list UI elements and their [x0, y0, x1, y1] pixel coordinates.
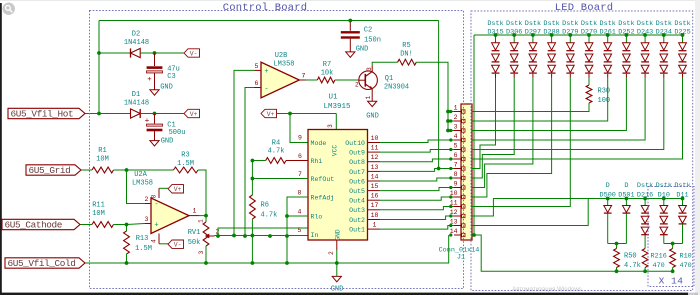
svg-text:D: D — [624, 182, 628, 190]
svg-text:6U5_Grid: 6U5_Grid — [29, 165, 71, 176]
wire pin3 to col8 — [472, 78, 626, 131]
svg-text:6: 6 — [255, 80, 259, 87]
pin 7 of J1 — [454, 168, 461, 170]
svg-text:Dstk: Dstk — [674, 182, 690, 190]
svg-text:2: 2 — [328, 251, 335, 255]
svg-text:14: 14 — [371, 173, 379, 180]
svg-text:D1: D1 — [132, 91, 140, 99]
wire pin9 to col3 — [472, 78, 533, 188]
svg-text:-: - — [264, 86, 268, 94]
svg-text:Dstk: Dstk — [674, 20, 690, 28]
LED stack Dstk D225 — [674, 20, 690, 36]
diode D2 1N4148 — [131, 48, 141, 57]
wire R3 to output node — [198, 170, 206, 216]
power flag V- (U2A pin4) — [159, 243, 168, 245]
svg-text:2N3904: 2N3904 — [384, 84, 409, 92]
op-amp U2B LM358 — [261, 62, 299, 98]
wire R11 to node — [114, 224, 127, 226]
U1 pin 15 Out5 stub — [368, 190, 381, 192]
ground C3 — [150, 90, 159, 95]
svg-text:Dstk: Dstk — [581, 20, 597, 28]
svg-text:GND: GND — [356, 46, 369, 54]
node grid — [125, 168, 129, 172]
wire pin6 to col11 — [472, 78, 683, 160]
LED stack Dstk D252 — [618, 20, 634, 36]
connector J1 Conn_01x14 — [461, 104, 472, 240]
wire R30 to pin1 — [472, 103, 589, 112]
U2A pin8 V+ stub — [158, 188, 160, 198]
wire Q1 collector up — [371, 66, 373, 72]
svg-text:7: 7 — [454, 162, 458, 169]
svg-text:D10: D10 — [658, 191, 670, 199]
svg-text:R3: R3 — [181, 152, 189, 160]
svg-text:In: In — [311, 232, 319, 239]
node aux D500 — [606, 197, 610, 201]
svg-text:10M: 10M — [92, 210, 105, 218]
wire In riser — [218, 228, 308, 236]
svg-text:R10: R10 — [680, 253, 692, 261]
wire pin12 to aux rail — [472, 199, 588, 217]
svg-text:Dstk: Dstk — [506, 20, 522, 28]
wire D10-D11 join — [664, 243, 683, 245]
LED stack Dstk D234 — [656, 20, 672, 36]
svg-text:Dstk: Dstk — [562, 20, 578, 28]
svg-text:Q1: Q1 — [385, 75, 393, 83]
LED stack Dstk D297 — [525, 20, 541, 36]
node anode col D306 — [512, 33, 516, 37]
node anode col D270 — [587, 33, 591, 37]
svg-text:R5: R5 — [402, 42, 410, 50]
U1 pin 11 Out9 stub — [368, 151, 381, 153]
resistor R50 4.7k — [616, 244, 618, 249]
svg-text:R50: R50 — [624, 253, 637, 261]
wire pin5 to col10 — [472, 78, 664, 150]
svg-text:Out1: Out1 — [349, 227, 365, 234]
resistor R11 10M — [92, 222, 114, 228]
pin 12 of J1 — [454, 215, 461, 217]
wire pin11 to col5 — [472, 78, 570, 207]
wire R1 to node — [114, 169, 127, 171]
LED Board sheet box — [471, 11, 693, 291]
wire Out5 to connector pin 9 — [380, 188, 454, 191]
wire D2 row — [99, 52, 131, 54]
node R6-wiper cross — [251, 234, 255, 238]
svg-text:D500: D500 — [600, 191, 616, 199]
LED stack Dstk D279 — [562, 20, 578, 36]
svg-text:Dstk: Dstk — [525, 20, 541, 28]
wire R5 to connector pin1 column — [416, 62, 448, 130]
wire V+ to U1 mode/vcc — [277, 113, 337, 115]
pin 6 of J1 — [454, 158, 461, 160]
svg-text:RefOut: RefOut — [311, 176, 335, 183]
LED stack Dstk D315 — [487, 20, 503, 36]
diode D1 1N4148 — [131, 109, 141, 118]
svg-text:Out10: Out10 — [345, 140, 365, 147]
svg-text:R216: R216 — [651, 253, 667, 261]
pin 11 of J1 — [454, 206, 461, 208]
node rail-hot — [97, 112, 101, 116]
svg-text:1: 1 — [373, 222, 377, 229]
svg-text:LED Board: LED Board — [555, 2, 614, 14]
svg-text:10: 10 — [371, 135, 379, 142]
svg-text:Out8: Out8 — [349, 159, 365, 166]
svg-text:X 14: X 14 — [659, 276, 684, 287]
U1 pin 17 Out3 stub — [368, 209, 381, 211]
Control Board sheet box — [90, 11, 464, 289]
power flag V+ (D1) — [184, 109, 200, 117]
ground C1 — [150, 141, 159, 146]
pin 14 of J1 — [454, 234, 461, 236]
node pin2 feed — [446, 119, 450, 123]
diode D10 — [656, 182, 672, 199]
svg-text:RV1: RV1 — [188, 229, 201, 237]
wire top supply rail — [99, 20, 439, 22]
power flag V+ (U1) — [261, 109, 277, 117]
wire Out10 to connector pin 4 — [380, 140, 454, 143]
svg-text:Out5: Out5 — [349, 188, 365, 195]
svg-text:R7: R7 — [323, 61, 331, 69]
svg-text:8: 8 — [151, 194, 158, 198]
node D2-C3 — [153, 51, 157, 55]
svg-text:GND: GND — [331, 286, 344, 294]
resistor R13 1.5M — [126, 225, 128, 232]
svg-text:C3: C3 — [167, 73, 175, 81]
svg-text:150n: 150n — [364, 37, 381, 45]
node pin1 feed — [446, 110, 450, 114]
wire RefOut row — [252, 178, 308, 180]
node left rail-pin14 row — [472, 233, 476, 237]
node wiper-RefAdj — [285, 234, 289, 238]
svg-text:16: 16 — [371, 193, 379, 200]
U2A pin4 V- stub — [158, 234, 160, 244]
svg-text:8: 8 — [298, 190, 302, 197]
svg-text:R1: R1 — [98, 147, 106, 155]
svg-text:6U5_Vfil_Hot: 6U5_Vfil_Hot — [11, 109, 74, 120]
resistor R4 4.7k — [252, 160, 265, 162]
LED stack Dstk D288 — [543, 20, 559, 36]
svg-text:6: 6 — [454, 152, 458, 159]
svg-text:Out3: Out3 — [349, 207, 365, 214]
wire wiper row to U1 In — [215, 235, 309, 237]
svg-text:Out9: Out9 — [349, 150, 365, 157]
power flag V+ (U2A pin8) — [159, 187, 168, 189]
global label 6U5_Vfil_Hot — [8, 108, 85, 118]
svg-text:11: 11 — [371, 145, 379, 152]
pin 13 of J1 — [454, 225, 461, 227]
svg-text:Out4: Out4 — [349, 198, 365, 205]
wire Out4 to connector pin 10 — [380, 197, 454, 200]
svg-text:R13: R13 — [136, 235, 149, 243]
wire node to U2A pin3 — [127, 224, 145, 225]
svg-text:470: 470 — [680, 262, 692, 270]
svg-text:6U5_Cathode: 6U5_Cathode — [5, 220, 63, 231]
node R50 top — [615, 242, 619, 246]
page bottom black border — [0, 293, 688, 295]
svg-text:10M: 10M — [96, 156, 109, 164]
svg-text:GND: GND — [160, 84, 173, 92]
svg-text:Dstk: Dstk — [487, 20, 503, 28]
svg-text:LM358: LM358 — [132, 180, 153, 188]
svg-text:V+: V+ — [174, 186, 182, 193]
wire U1 gnd to cold rail — [336, 250, 338, 263]
svg-text:100: 100 — [598, 97, 611, 105]
ground Q1 — [368, 101, 377, 106]
LED stack Dstk D270 — [581, 20, 597, 36]
page left black border — [0, 3, 2, 295]
resistor R1 10M — [92, 167, 114, 173]
resistor R6 4.7k — [251, 161, 253, 196]
svg-text:4.7k: 4.7k — [261, 212, 278, 220]
U1 pin 1 Out1 stub — [368, 228, 381, 230]
svg-text:4.7k: 4.7k — [268, 148, 285, 156]
node U2A output — [204, 214, 208, 218]
svg-text:15: 15 — [371, 183, 379, 190]
node cold-RV1 — [204, 261, 208, 265]
svg-text:Dstk: Dstk — [637, 182, 653, 190]
svg-text:7: 7 — [302, 73, 306, 80]
transistor Q1 2N3904 — [359, 71, 378, 90]
node wiper-In — [216, 234, 220, 238]
U1 pin 10 Out10 stub — [368, 142, 381, 144]
node aux D10 — [662, 197, 666, 201]
svg-text:GND: GND — [161, 138, 174, 146]
node R10 bottom — [671, 269, 675, 273]
X 14 sub box — [648, 187, 694, 287]
node anode col D252 — [625, 33, 629, 37]
pin 9 of J1 — [454, 187, 461, 189]
svg-text:500u: 500u — [169, 129, 186, 137]
pin 3 of J1 — [454, 130, 461, 132]
diode D216 — [637, 182, 653, 199]
svg-text:17: 17 — [371, 202, 379, 209]
svg-text:LM3915: LM3915 — [323, 103, 351, 111]
svg-text:Rhi: Rhi — [311, 158, 323, 165]
svg-text:470: 470 — [653, 262, 665, 270]
pin 5 of J1 — [454, 149, 461, 151]
svg-text:Dstk: Dstk — [656, 20, 672, 28]
svg-text:12: 12 — [371, 154, 379, 161]
node cold-R6 — [251, 261, 255, 265]
U1 pin 13 Out7 stub — [368, 170, 381, 172]
svg-text:LM358: LM358 — [273, 61, 294, 69]
svg-text:5: 5 — [454, 143, 458, 150]
svg-text:Dstk: Dstk — [600, 20, 616, 28]
svg-text:2: 2 — [145, 196, 149, 203]
node wiper-U2Bp5 — [232, 234, 236, 238]
U1 pin2 GND stub — [336, 240, 338, 250]
svg-text:Автоматизация Windows: Автоматизация Windows — [512, 286, 582, 293]
svg-text:6U5_Vfil_Cold: 6U5_Vfil_Cold — [8, 258, 76, 269]
wire Out8 to connector pin 6 — [380, 159, 454, 162]
node aux D11 — [681, 197, 685, 201]
svg-text:DN!: DN! — [400, 51, 413, 59]
node Rhi-R6col — [251, 159, 255, 163]
svg-text:9: 9 — [454, 181, 458, 188]
global label 6U5_Cathode — [2, 219, 80, 229]
node anode col D279 — [568, 33, 572, 37]
resistor R7 10k — [306, 79, 317, 81]
svg-text:U1: U1 — [328, 94, 338, 102]
page right gray band — [695, 0, 700, 295]
svg-text:Control Board: Control Board — [223, 2, 308, 14]
pin 1 of J1 — [454, 111, 461, 113]
node anode col D225 — [681, 33, 685, 37]
wire pin10 to col4 — [472, 78, 552, 198]
svg-text:GND: GND — [366, 113, 379, 121]
svg-text:7: 7 — [298, 171, 302, 178]
wire pin8 to col2 — [472, 78, 514, 179]
node cold-R13 — [125, 261, 129, 265]
svg-text:V-: V- — [174, 242, 182, 249]
U1 pin 14 Out6 stub — [368, 180, 381, 182]
resistor R10 470 — [672, 244, 674, 249]
pin 8 of J1 — [454, 177, 461, 179]
wire U2A out to node — [199, 215, 206, 217]
svg-text:1: 1 — [454, 105, 458, 112]
node R50 bottom — [615, 269, 619, 273]
svg-text:4.7k: 4.7k — [624, 262, 641, 270]
U1 pin 12 Out8 stub — [368, 161, 381, 163]
svg-text:1: 1 — [193, 208, 197, 215]
svg-text:3: 3 — [327, 124, 334, 128]
svg-text:V-: V- — [190, 50, 198, 57]
LED stack Dstk D306 — [506, 20, 522, 36]
node wiper-U2Bp6 — [243, 234, 247, 238]
node pin3 feed — [446, 129, 450, 133]
svg-text:U2B: U2B — [275, 52, 288, 60]
wire D1 to V+ flag — [140, 113, 184, 115]
svg-text:1: 1 — [365, 95, 372, 99]
pin 4 of J1 — [454, 139, 461, 141]
node cold-U1gnd — [335, 261, 339, 265]
svg-text:Rlo: Rlo — [311, 213, 323, 220]
svg-text:D501: D501 — [618, 191, 634, 199]
svg-text:5: 5 — [255, 63, 259, 70]
svg-text:V+: V+ — [267, 111, 275, 118]
capacitor C3 47u — [154, 53, 156, 66]
svg-text:D11: D11 — [676, 191, 688, 199]
node anode col D315 — [494, 33, 498, 37]
wire pin4 to col9 — [472, 78, 645, 141]
resistor R3 1.5M — [174, 167, 199, 173]
node RefOut-R6col — [251, 177, 255, 181]
wire pin2 to col7 — [472, 78, 608, 122]
wire R7 to Q1 base — [335, 79, 359, 81]
diode D11 — [674, 182, 690, 199]
svg-text:1: 1 — [198, 219, 205, 223]
ground C2 — [346, 52, 355, 57]
svg-text:D2: D2 — [132, 31, 140, 39]
node cold-RefAdj — [285, 261, 289, 265]
capacitor C2 150n — [349, 21, 351, 31]
node R216 bottom — [643, 269, 647, 273]
svg-text:4: 4 — [454, 133, 458, 140]
node D1-C1 — [153, 112, 157, 116]
power flag V- (D2) — [184, 49, 200, 57]
page top hairline — [0, 0, 700, 1]
node anode col D297 — [531, 33, 535, 37]
svg-text:V+: V+ — [190, 111, 198, 118]
svg-text:Out2: Out2 — [349, 217, 365, 224]
wire LED anode top rail — [474, 34, 683, 36]
wire D2 to V- flag — [140, 52, 184, 54]
svg-text:13: 13 — [371, 164, 379, 171]
svg-text:D216: D216 — [637, 191, 653, 199]
node rail-D2 — [97, 51, 101, 55]
wire Out9 to connector pin 5 — [380, 150, 454, 153]
svg-text:1N4148: 1N4148 — [124, 100, 149, 108]
LED stack Dstk D243 — [637, 20, 653, 36]
svg-text:D: D — [606, 182, 610, 190]
diode D501 — [618, 182, 634, 199]
node anode col D243 — [643, 33, 647, 37]
svg-text:5: 5 — [298, 227, 302, 234]
wire Out3 to connector pin 11 — [380, 207, 454, 210]
node anode col D234 — [662, 33, 666, 37]
wire pin14 to bottom return rail — [472, 235, 673, 271]
LED stack Dstk D261 — [600, 20, 616, 36]
svg-text:+: + — [147, 76, 152, 84]
svg-text:10k: 10k — [321, 70, 334, 78]
wire D500-D501 join — [608, 243, 627, 245]
svg-text:Dstk: Dstk — [618, 20, 634, 28]
op-amp U2A LM358 — [151, 198, 189, 234]
svg-text:R4: R4 — [272, 140, 280, 148]
svg-text:VCC: VCC — [332, 145, 339, 156]
node aux D216 — [643, 197, 647, 201]
svg-text:RefAdj: RefAdj — [311, 194, 335, 201]
node anode col D261 — [606, 33, 610, 37]
node aux D501 — [625, 197, 629, 201]
svg-text:Mode: Mode — [311, 140, 327, 147]
global label 6U5_Vfil_Cold — [5, 258, 85, 268]
wire Vfil_Hot riser — [98, 21, 100, 114]
wire V+ to U1 VCC pin3 — [335, 114, 337, 130]
node wiper-Rlo — [268, 234, 272, 238]
wire LED board left rail — [473, 35, 475, 235]
resistor R216 470 — [644, 244, 646, 249]
wire Out1 to connector pin 13 — [380, 226, 454, 230]
capacitor C1 500u — [154, 114, 156, 124]
svg-text:R6: R6 — [261, 202, 269, 210]
svg-text:R11: R11 — [92, 202, 105, 210]
wire Q1 emitter to gnd — [371, 89, 373, 101]
magnifier icon — [3, 3, 15, 15]
wire 6U5_Vfil_Hot row — [85, 113, 131, 115]
svg-text:+: + — [154, 222, 158, 230]
U1 pin 16 Out4 stub — [368, 199, 381, 201]
svg-text:3: 3 — [198, 250, 205, 254]
pin 2 of J1 — [454, 120, 461, 122]
wire Out7 to connector pin 7 — [380, 169, 454, 172]
node pin7 feed — [437, 167, 441, 171]
wire U2B pin5 down to wiper — [234, 70, 255, 235]
svg-text:U2A: U2A — [134, 171, 147, 179]
svg-text:3: 3 — [145, 216, 149, 223]
pin 10 of J1 — [454, 196, 461, 198]
svg-text:+: + — [264, 68, 268, 76]
wire 6U5_Vfil_Cold rail — [85, 235, 449, 263]
svg-text:8: 8 — [454, 171, 458, 178]
global label 6U5_Grid — [26, 165, 81, 175]
wire 6U5_Grid row — [81, 169, 92, 171]
wire aux anode rail — [588, 198, 682, 200]
svg-text:3: 3 — [454, 124, 458, 131]
wire pin7 to col1 — [472, 78, 496, 169]
svg-text:Dstk: Dstk — [543, 20, 559, 28]
wire Out6 to connector pin 8 — [380, 178, 454, 181]
resistor R30 100 — [588, 78, 590, 86]
